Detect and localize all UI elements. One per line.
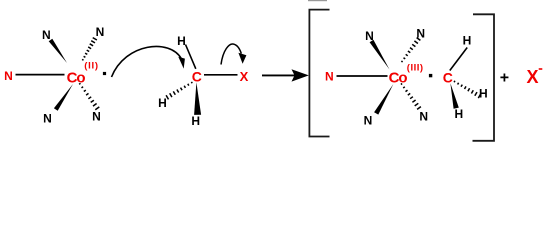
wedge bond Co-N bottom-left (right complex) xyxy=(374,84,393,115)
svg-text:(III): (III) xyxy=(407,63,424,74)
svg-text:N: N xyxy=(4,69,13,83)
hashed bond Co-N top-right (right complex) xyxy=(401,61,402,62)
bond Co-N left xyxy=(16,74,65,76)
bond C-H top (right complex) xyxy=(450,48,467,71)
svg-text:X: X xyxy=(240,69,249,84)
svg-text:X: X xyxy=(526,67,538,87)
reaction arrow xyxy=(262,74,295,76)
radical electron dot (left complex) xyxy=(103,72,106,75)
svg-text:N: N xyxy=(364,114,373,128)
wedge bond C-H bottom xyxy=(194,82,201,115)
svg-text:H: H xyxy=(463,33,472,47)
svg-text:N: N xyxy=(42,28,51,42)
bond Co-N left (right complex) xyxy=(337,75,388,77)
bond C-H top xyxy=(186,45,196,69)
hashed bond Co-N top-right xyxy=(82,58,83,61)
wedge bond Co-N top-left xyxy=(49,39,67,63)
svg-text:Co: Co xyxy=(389,70,408,87)
bonding electron dot (right complex) xyxy=(429,74,432,77)
wedge bond C-H bottom (right complex) xyxy=(450,83,458,109)
left bracket xyxy=(309,10,329,137)
wedge bond Co-N top-left (right complex) xyxy=(370,40,390,70)
svg-text:N: N xyxy=(419,109,428,123)
hashed bond Co-N bottom-right (right complex) xyxy=(401,84,402,85)
svg-text:H: H xyxy=(177,34,186,48)
svg-text:C: C xyxy=(192,69,202,85)
svg-text:H: H xyxy=(191,114,200,128)
hashed bond C-H left xyxy=(190,82,193,83)
svg-text:+: + xyxy=(500,69,509,86)
curved arrow from Co radical to carbon xyxy=(112,46,182,77)
svg-text:H: H xyxy=(454,107,463,121)
faint cropped mark at top edge xyxy=(308,0,327,1)
svg-text:C: C xyxy=(443,69,453,85)
wedge bond Co-N bottom-left xyxy=(54,84,73,111)
hashed bond Co-N bottom-right xyxy=(79,83,80,84)
svg-text:N: N xyxy=(96,25,105,39)
svg-text:N: N xyxy=(325,70,334,84)
svg-text:N: N xyxy=(43,111,52,125)
svg-text:(II): (II) xyxy=(84,61,98,72)
hashed bond C-H right (right complex) xyxy=(453,81,456,82)
svg-text:N: N xyxy=(92,109,101,123)
minus superscript of X xyxy=(539,68,543,70)
svg-text:Co: Co xyxy=(67,70,86,87)
bond C-X xyxy=(204,74,238,76)
curved arrow onto X xyxy=(221,44,241,65)
svg-text:H: H xyxy=(479,87,488,101)
svg-text:H: H xyxy=(158,96,167,110)
right bracket xyxy=(473,14,495,141)
